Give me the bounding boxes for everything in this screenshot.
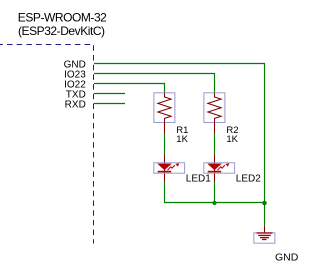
LED LED2 — [204, 155, 235, 182]
wire RXD stub — [94, 103, 125, 105]
wire GND pin to right rail — [94, 64, 265, 203]
svg-text:ESP-WROOM-32: ESP-WROOM-32 — [18, 10, 107, 24]
junction dot at LED2 / bottom rail — [212, 201, 216, 205]
wire LED1 down to bottom rail — [165, 182, 215, 203]
wire down to ground symbol — [264, 203, 266, 226]
resistor R2 — [204, 93, 225, 134]
svg-text:LED2: LED2 — [236, 174, 261, 185]
LED LED1 — [154, 155, 185, 182]
wire LED2 down to bottom rail — [214, 182, 216, 203]
svg-text:(ESP32-DevKitC): (ESP32-DevKitC) — [18, 24, 105, 38]
ground symbol — [254, 226, 275, 244]
svg-text:1K: 1K — [226, 134, 238, 145]
svg-text:1K: 1K — [176, 134, 188, 145]
svg-text:GND: GND — [275, 252, 299, 264]
wire TXD stub — [94, 93, 125, 95]
wire IO22 pin to R1 — [94, 84, 165, 94]
junction dot at ground rail / bottom rail — [262, 201, 267, 206]
wire R1 to LED1 — [164, 134, 166, 155]
svg-text:RXD: RXD — [65, 99, 86, 110]
wire bottom rail to ground rail — [215, 202, 265, 204]
module outline ESP-WROOM-32 (dashed box edge) — [0, 45, 94, 244]
wire IO23 pin to R2 — [94, 74, 215, 94]
wire R2 to LED2 — [214, 134, 216, 155]
svg-text:LED1: LED1 — [186, 174, 211, 185]
resistor R1 — [154, 93, 175, 134]
